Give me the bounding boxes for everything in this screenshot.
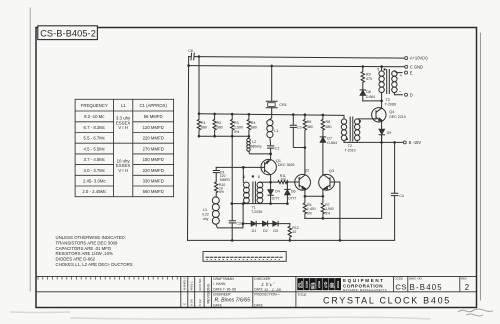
svg-text:D4: D4 — [275, 189, 280, 193]
svg-text:6: 6 — [243, 175, 245, 179]
svg-text:560 MMFD: 560 MMFD — [143, 189, 164, 194]
svg-text:R3: R3 — [234, 121, 239, 125]
svg-text:4.5 - 5.5Mc: 4.5 - 5.5Mc — [84, 146, 106, 151]
svg-text:V I H: V I H — [118, 125, 128, 130]
svg-text:3.0 - 3.7Mc: 3.0 - 3.7Mc — [84, 168, 106, 173]
transformer T3 windings — [379, 71, 384, 76]
svg-text:220 MMFD: 220 MMFD — [143, 168, 164, 173]
svg-text:uhy: uhy — [203, 217, 209, 221]
svg-text:2: 2 — [465, 283, 469, 292]
svg-text:B -15V: B -15V — [409, 140, 422, 145]
svg-text:CHECKER: CHECKER — [254, 277, 271, 281]
svg-text:680uhy: 680uhy — [251, 145, 262, 149]
svg-text:ECO NO.: ECO NO. — [198, 278, 202, 291]
svg-text:CODE: CODE — [395, 277, 403, 281]
equipment corporation text — [343, 278, 387, 292]
terminal D — [405, 93, 408, 96]
svg-text:MAYNARD. MASSACHUSETTS: MAYNARD. MASSACHUSETTS — [343, 288, 387, 292]
svg-text:DEC 2219: DEC 2219 — [389, 115, 406, 119]
resistor R12 — [288, 224, 291, 241]
svg-text:CS-B-B405-2: CS-B-B405-2 — [40, 29, 96, 39]
terminal B — [403, 141, 406, 144]
wire Q2/Q3 emitter rail — [305, 195, 323, 197]
inductor L1 — [267, 120, 273, 126]
svg-text:D: D — [410, 92, 413, 97]
notes text block — [56, 235, 133, 267]
svg-text:680: 680 — [217, 125, 223, 129]
svg-text:380: 380 — [307, 125, 313, 129]
narrow column vertical texts — [183, 277, 211, 306]
svg-text:Q2: Q2 — [304, 169, 309, 173]
transformer T1 windings — [244, 182, 250, 188]
svg-text:D777: D777 — [288, 197, 296, 201]
wire T2 secondary to Q4 base — [357, 118, 373, 120]
svg-text:B-B405-2: B-B405-2 — [183, 277, 187, 290]
svg-text:C3: C3 — [297, 126, 302, 130]
diode D4 — [270, 182, 272, 190]
svg-text:A+10V(A): A+10V(A) — [410, 56, 428, 61]
paper right edge — [479, 33, 481, 300]
svg-text:D9: D9 — [387, 131, 392, 135]
svg-text:5%: 5% — [219, 190, 224, 194]
svg-text:DATE: DATE — [213, 304, 222, 308]
svg-text:V I H: V I H — [118, 168, 128, 173]
transformer phasing dots — [252, 175, 254, 177]
svg-text:D1: D1 — [252, 229, 257, 233]
svg-text:DEC 3639: DEC 3639 — [278, 163, 295, 167]
svg-text:B-B405: B-B405 — [410, 283, 443, 292]
svg-text:5%: 5% — [325, 211, 330, 215]
diode D7 — [320, 136, 325, 138]
svg-text:TRANSISTORS ARE DEC 3009: TRANSISTORS ARE DEC 3009 — [56, 240, 119, 245]
svg-text:t: t — [324, 280, 327, 290]
draftsman / checker / engineer / production cells — [213, 277, 307, 307]
svg-text:L1: L1 — [121, 103, 126, 108]
svg-text:9 1/8: 9 1/8 — [190, 299, 194, 306]
resistor R5 — [303, 196, 306, 218]
wire R5/R7 bottoms to -15V riser — [305, 135, 382, 218]
svg-text:DRAFTSMAN: DRAFTSMAN — [213, 277, 234, 281]
resistor R11 — [278, 181, 288, 184]
bottom-right pencil smudge — [458, 309, 493, 316]
wire -15V rail — [344, 141, 402, 143]
transistor Q3 (mirrored) — [319, 174, 335, 190]
svg-text:d: d — [298, 280, 303, 290]
transistor Q1 — [261, 159, 276, 174]
svg-text:D-664: D-664 — [327, 141, 337, 145]
svg-text:3.7 - 4.5Mc: 3.7 - 4.5Mc — [84, 157, 106, 162]
wire bottom of D4/D6 — [232, 203, 288, 205]
svg-text:DWG. NO.: DWG. NO. — [409, 277, 423, 281]
wire Q1 base net (C5 top) — [216, 166, 261, 168]
svg-text:Q3: Q3 — [329, 169, 334, 173]
svg-text:220 MMFD: 220 MMFD — [143, 136, 164, 141]
svg-text:UNLESS OTHERWISE INDICATED:: UNLESS OTHERWISE INDICATED: — [56, 235, 126, 240]
svg-text:MMFD: MMFD — [220, 178, 231, 182]
terminal labels — [409, 56, 429, 145]
wire C1/L2 junction to Q1 — [270, 154, 272, 160]
junction dots — [187, 55, 396, 242]
svg-text:R6: R6 — [307, 120, 312, 124]
terminal A — [405, 57, 408, 60]
drawing number box CS-B-B405-2 — [38, 26, 98, 40]
svg-text:5: 5 — [377, 68, 379, 72]
svg-text:D3: D3 — [273, 229, 278, 233]
digital logo — [297, 278, 341, 290]
svg-text:RESISTORS ARE 1/4W ,10%: RESISTORS ARE 1/4W ,10% — [56, 251, 114, 256]
wire T3 secondary to terminals E and D — [394, 71, 402, 95]
svg-text:T1: T1 — [252, 205, 256, 209]
svg-text:TITLE: TITLE — [298, 293, 308, 297]
svg-text:120 MMFD: 120 MMFD — [143, 125, 164, 130]
resistor R3 — [231, 114, 234, 135]
svg-text:R. Binns 7/6/65: R. Binns 7/6/65 — [215, 298, 251, 304]
capacitor C4 — [391, 142, 397, 240]
capacitor C5 — [213, 167, 219, 181]
wire C6 to gnd-rail corner — [188, 57, 190, 66]
inductor L3 — [212, 197, 219, 204]
svg-text:270 MMFD: 270 MMFD — [143, 146, 164, 151]
svg-text:CAPACITORS ARE .01 MFD: CAPACITORS ARE .01 MFD — [56, 246, 112, 251]
connector outline (module pins) — [203, 252, 286, 262]
frequency table — [75, 99, 174, 196]
drawing border frame — [36, 28, 477, 308]
resistor R6 — [303, 115, 306, 148]
svg-text:CR1: CR1 — [279, 103, 287, 107]
code / dwg no / rev cells — [395, 277, 470, 292]
svg-text:T-2010: T-2010 — [345, 149, 356, 153]
svg-text:8.2 -10 Mc: 8.2 -10 Mc — [84, 114, 105, 119]
diode D2 — [263, 221, 268, 226]
wire +10V drop to bias rail — [198, 57, 200, 114]
transformer T1 primary pin — [242, 167, 244, 182]
title block and revision strip — [36, 276, 477, 307]
svg-text:D2: D2 — [263, 229, 268, 233]
svg-text:REVISIONS: REVISIONS — [207, 283, 211, 303]
svg-text:D6: D6 — [291, 189, 296, 193]
svg-text:+: + — [400, 73, 403, 78]
svg-text:FREQUENCY: FREQUENCY — [81, 103, 108, 108]
svg-text:I. HAHN: I. HAHN — [213, 282, 226, 286]
wire T1 sec top / R11 rail — [259, 181, 278, 183]
svg-text:PRODUCTION—: PRODUCTION— — [254, 293, 280, 297]
choke L2 — [248, 136, 250, 138]
wire ground rail — [188, 239, 395, 241]
svg-text:D777: D777 — [272, 197, 280, 201]
transistor Q2 — [295, 174, 311, 190]
svg-text:0.22: 0.22 — [202, 212, 209, 216]
svg-text:56 MMFD: 56 MMFD — [144, 114, 163, 119]
paper left edge — [29, 8, 31, 291]
svg-text:680: 680 — [201, 125, 207, 129]
wire resistor-row bottom rail — [199, 135, 249, 137]
transformer T3 primary pin — [381, 67, 383, 71]
diode D8 — [360, 89, 365, 91]
diode D9 — [379, 129, 384, 134]
transformer T2 primary pin — [343, 115, 345, 119]
svg-text:D8: D8 — [366, 90, 371, 94]
wire Q3 base to ground drop — [335, 182, 340, 240]
wire T1 pin line down to diode string — [242, 204, 244, 224]
svg-text:E: E — [410, 70, 413, 75]
svg-text:DATE 7- 26- 65: DATE 7- 26- 65 — [213, 288, 236, 292]
svg-text:CS: CS — [395, 283, 406, 292]
component labels — [188, 49, 405, 234]
svg-text:T-2039: T-2039 — [251, 210, 262, 214]
resistor R8 — [321, 115, 324, 137]
svg-text:680: 680 — [326, 125, 332, 129]
svg-text:g: g — [310, 280, 315, 290]
resistor R9 — [361, 67, 364, 90]
diode D1 — [251, 221, 256, 226]
svg-text:a: a — [330, 280, 335, 290]
wire bias rail — [199, 114, 344, 116]
capacitor C1 — [268, 146, 274, 154]
svg-text:100: 100 — [280, 178, 286, 182]
resistor R4 — [247, 114, 250, 135]
resistor R2 — [213, 114, 216, 135]
svg-text:C6: C6 — [188, 49, 193, 53]
wire R11 to Q2 base — [286, 181, 294, 183]
svg-text:10: 10 — [292, 230, 296, 234]
svg-text:6.7 - 8.2Mc: 6.7 - 8.2Mc — [84, 125, 106, 130]
svg-text:8: 8 — [258, 175, 260, 179]
wire R3 drop / C2 branch — [231, 136, 233, 220]
svg-text:T2: T2 — [348, 144, 352, 148]
svg-text:EQUIPMENT: EQUIPMENT — [343, 278, 385, 283]
wire top +10V rail — [195, 57, 404, 59]
svg-text:i: i — [318, 280, 320, 290]
resistor R1 — [197, 114, 200, 135]
capacitor C6 — [189, 53, 196, 60]
transistor Q4 — [372, 108, 386, 122]
svg-text:C1: C1 — [275, 146, 280, 150]
resistor R10 — [215, 182, 218, 197]
svg-text:C GND: C GND — [410, 64, 423, 69]
crystal CR1 — [266, 66, 277, 120]
svg-text:D-664: D-664 — [366, 95, 375, 99]
svg-text:R4: R4 — [251, 121, 256, 125]
resistor R7 — [321, 196, 324, 218]
diode D6 — [285, 182, 290, 190]
svg-text:L3: L3 — [203, 208, 207, 212]
svg-text:R2: R2 — [217, 121, 222, 125]
svg-text:2.0 - 2.45Mc: 2.0 - 2.45Mc — [82, 189, 107, 194]
wire left ground riser — [188, 66, 189, 241]
svg-text:R1: R1 — [201, 121, 206, 125]
svg-text:5%: 5% — [307, 211, 312, 215]
wire R9/D8 to T3 bottom — [363, 100, 382, 102]
svg-text:C2: C2 — [236, 222, 241, 226]
svg-text:R9: R9 — [366, 72, 371, 76]
svg-text:CRYSTAL CLOCK B405: CRYSTAL CLOCK B405 — [323, 295, 451, 305]
handwritten signatures — [215, 282, 282, 304]
svg-text:1,500: 1,500 — [234, 125, 243, 129]
svg-text:L1: L1 — [274, 129, 278, 133]
capacitor C3 — [290, 115, 305, 148]
diode D3 — [273, 221, 278, 226]
revision strip tick marks — [38, 276, 177, 279]
svg-text:ENGINEER: ENGINEER — [213, 293, 231, 297]
svg-text:330 MMFD: 330 MMFD — [143, 179, 164, 184]
svg-text:CHOKES L1, L2 ARE DECI- DUCTO: CHOKES L1, L2 ARE DECI- DUCTORS — [56, 262, 133, 267]
svg-text:DATE: DATE — [254, 304, 263, 308]
scan streak artifacts — [10, 312, 430, 319]
svg-text:C4: C4 — [399, 194, 404, 198]
svg-text:C1 (APPROX): C1 (APPROX) — [139, 103, 167, 108]
capacitor C2 — [229, 221, 235, 241]
svg-text:i: i — [306, 280, 308, 290]
wire second rail (C GND net) — [189, 66, 404, 67]
svg-text:−: − — [399, 89, 402, 94]
svg-text:2.45- 3.0Mc: 2.45- 3.0Mc — [83, 179, 107, 184]
svg-text:T3: T3 — [386, 98, 390, 102]
transformer T2 windings — [341, 119, 346, 124]
svg-text:150 MMFD: 150 MMFD — [143, 157, 164, 162]
svg-text:680: 680 — [251, 125, 257, 129]
terminal C — [405, 65, 408, 68]
svg-text:REV.: REV. — [461, 277, 468, 281]
svg-text:DIODES ARE D-662: DIODES ARE D-662 — [56, 257, 96, 262]
svg-text:CORPORATION: CORPORATION — [343, 283, 383, 288]
terminal E — [405, 71, 408, 74]
svg-text:8 1/2: 8 1/2 — [198, 299, 202, 306]
svg-text:470: 470 — [366, 77, 372, 81]
svg-text:DATE: DATE — [254, 288, 263, 292]
svg-text:L2: L2 — [252, 140, 256, 144]
svg-text:Q4: Q4 — [389, 110, 394, 114]
svg-text:T-2066: T-2066 — [385, 103, 396, 107]
svg-text:4881-1: 4881-1 — [190, 281, 194, 291]
svg-text:R8: R8 — [326, 120, 331, 124]
wire diode string D1 D2 D3 — [243, 223, 251, 225]
svg-text:l: l — [337, 280, 339, 290]
svg-text:11 - 1- 65: 11 - 1- 65 — [264, 287, 282, 292]
svg-text:5.5 - 6.7Mc: 5.5 - 6.7Mc — [84, 136, 106, 141]
svg-text:5%: 5% — [234, 130, 240, 134]
